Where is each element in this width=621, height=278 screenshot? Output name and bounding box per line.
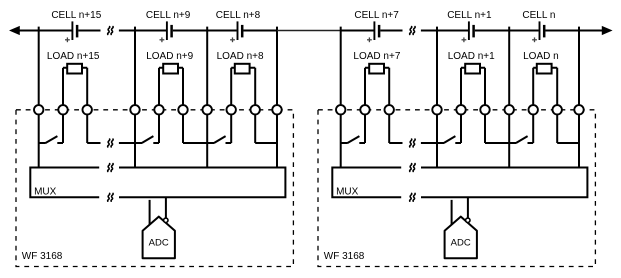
svg-text:CELL n+7: CELL n+7 — [354, 10, 399, 21]
svg-text:CELL n+9: CELL n+9 — [146, 10, 191, 21]
svg-text:ADC: ADC — [149, 238, 169, 249]
svg-text:LOAD n+8: LOAD n+8 — [217, 51, 264, 62]
svg-text:LOAD n+7: LOAD n+7 — [353, 51, 400, 62]
svg-text:LOAD n+1: LOAD n+1 — [448, 51, 495, 62]
svg-text:CELL n: CELL n — [522, 10, 555, 21]
svg-text:CELL n+8: CELL n+8 — [216, 10, 261, 21]
svg-text:MUX: MUX — [34, 187, 57, 198]
svg-text:WF 3168: WF 3168 — [324, 251, 365, 262]
svg-text:CELL n+15: CELL n+15 — [51, 10, 101, 21]
svg-text:CELL n+1: CELL n+1 — [447, 10, 492, 21]
svg-text:LOAD n+9: LOAD n+9 — [146, 51, 193, 62]
svg-text:WF 3168: WF 3168 — [22, 251, 63, 262]
svg-text:LOAD n+15: LOAD n+15 — [47, 51, 100, 62]
svg-text:ADC: ADC — [451, 238, 471, 249]
svg-text:LOAD n: LOAD n — [523, 51, 559, 62]
svg-text:MUX: MUX — [336, 187, 359, 198]
